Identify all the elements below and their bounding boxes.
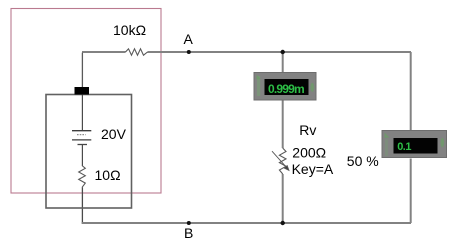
svg-text:200Ω: 200Ω (292, 144, 326, 160)
probe U2 green mark right (441, 138, 445, 147)
potentiometer Rv zigzag (279, 148, 286, 174)
node B junction dot (187, 221, 191, 225)
wire middle branch lower (282, 174, 284, 223)
svg-text:10kΩ: 10kΩ (113, 22, 146, 38)
svg-text:A: A (184, 31, 194, 47)
svg-text:50 %: 50 % (347, 153, 379, 169)
probe U2 LCD screen (394, 138, 438, 154)
probe U1 green arrow mark left (257, 76, 260, 96)
potentiometer Rv wiper arrow (272, 151, 289, 170)
wire right branch lower (410, 159, 412, 224)
probe U2 voltage probe body (382, 131, 447, 158)
wire bottom (node B net) (82, 222, 411, 224)
svg-text:Key=A: Key=A (292, 161, 334, 177)
resistor R2 10 Ohm zigzag (internal resistance) (79, 166, 86, 188)
battery subcircuit box (46, 95, 132, 209)
battery V1 plate short dashed (77, 134, 86, 136)
battery V1 bottom lead (81, 145, 83, 166)
battery subcircuit bottom lead (81, 187, 83, 222)
wire left vertical (battery top lead) (81, 53, 83, 88)
battery V1 top lead (81, 95, 83, 131)
battery V1 plate long top (72, 130, 91, 132)
svg-text:B: B (184, 225, 193, 240)
probe U1 LCD screen (265, 79, 309, 95)
battery V1 plate short bottom (78, 144, 88, 146)
svg-text:20V: 20V (101, 126, 127, 142)
svg-text:10Ω: 10Ω (95, 167, 121, 183)
svg-text:Rv: Rv (299, 122, 316, 138)
wire right branch upper (410, 52, 412, 132)
annotation red selection rectangle (11, 9, 161, 194)
battery terminal black pad (75, 87, 90, 95)
probe U1 current probe body (254, 73, 316, 101)
wire middle branch between probe and Rv (282, 100, 284, 148)
wire middle branch upper (282, 52, 284, 73)
svg-text:0.999m: 0.999m (268, 82, 304, 96)
probe U2 green mark left (385, 133, 390, 139)
node A junction dot (187, 50, 191, 54)
battery V1 plate long bottom (72, 139, 91, 141)
wire top (node A net) (82, 51, 411, 53)
svg-text:0.1: 0.1 (397, 141, 411, 153)
probe U1 green mark right (310, 83, 314, 92)
junction dot bottom of middle branch (281, 221, 285, 225)
junction dot top of middle branch (281, 50, 285, 54)
resistor R1 10kOhm zigzag (126, 49, 148, 55)
